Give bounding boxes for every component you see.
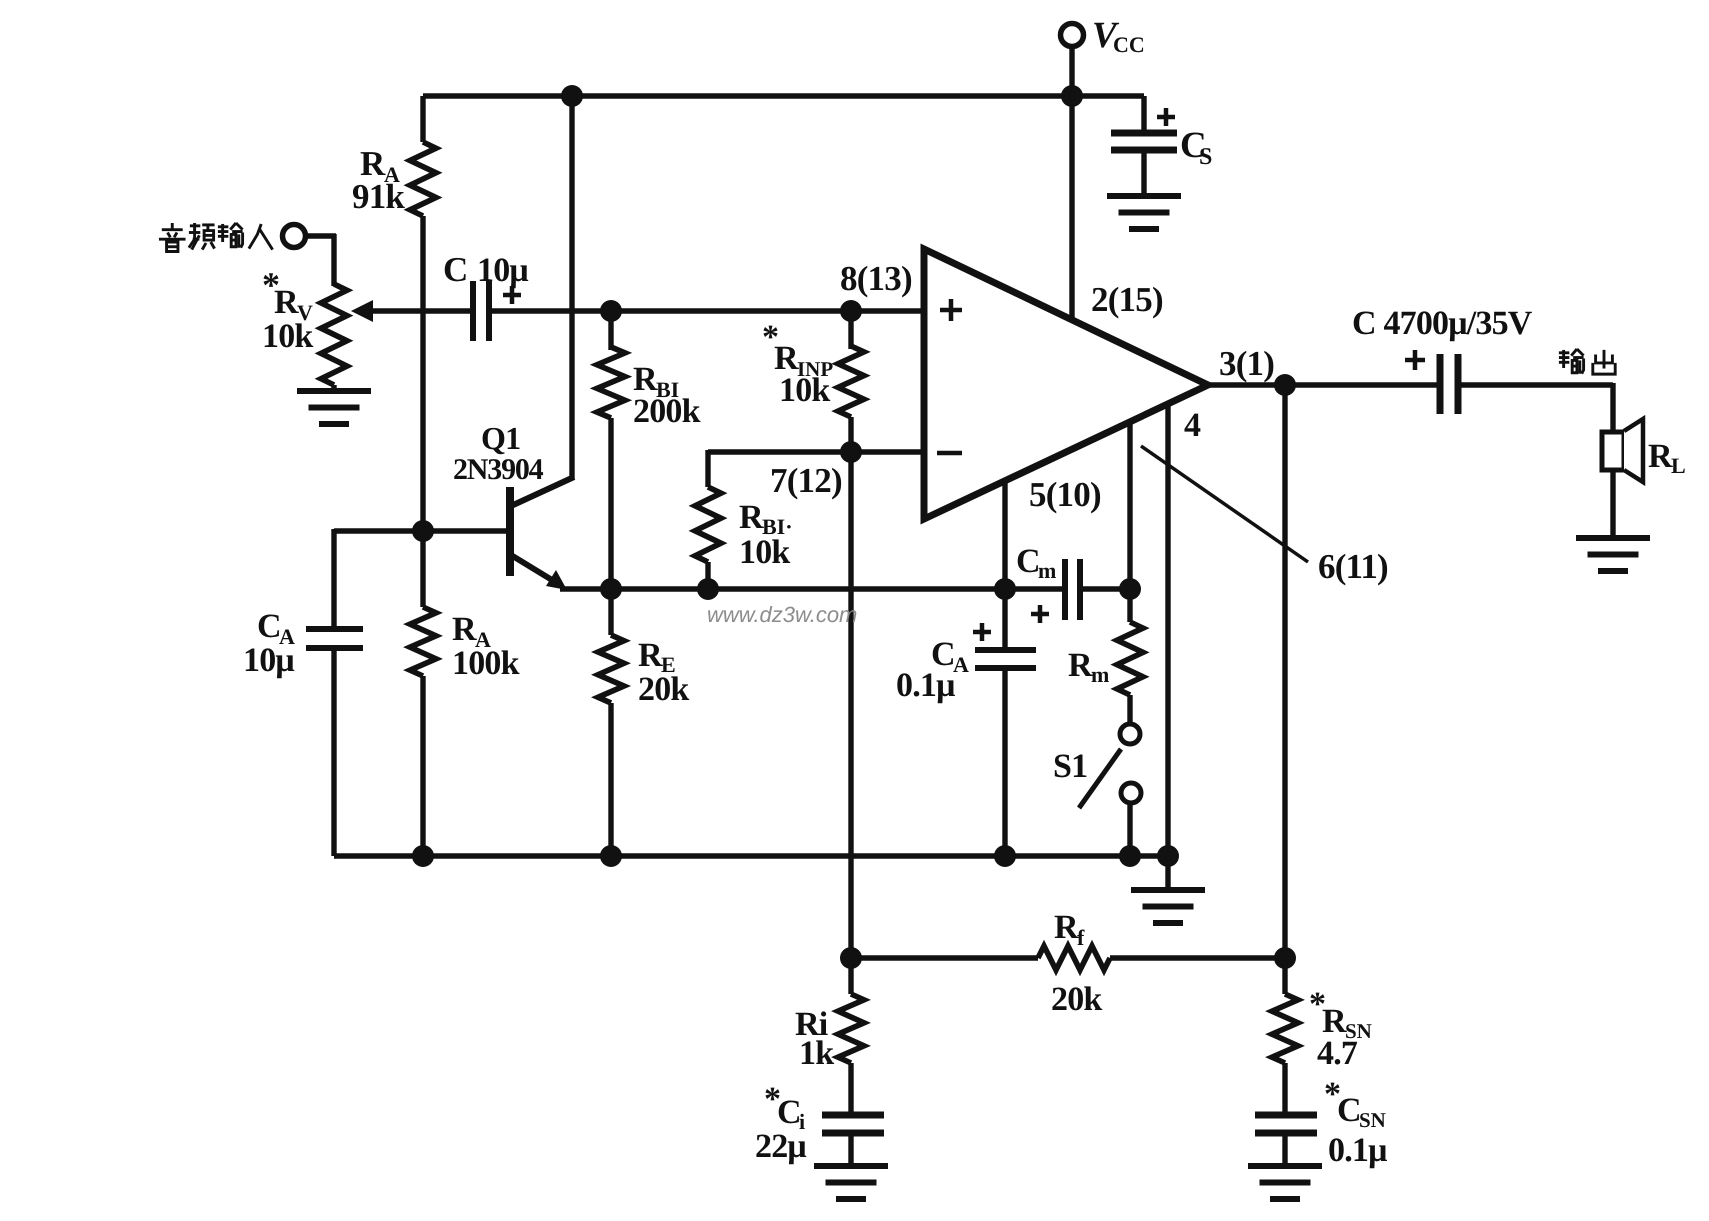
label RBI 200k bbox=[633, 361, 701, 430]
wire Rm to switch bbox=[1127, 695, 1132, 724]
capacitor CS plus bbox=[1157, 108, 1175, 126]
svg-text:0.1μ: 0.1μ bbox=[1328, 1132, 1387, 1169]
label audio input 音频输入 bbox=[159, 223, 273, 252]
label pin 5(10) bbox=[1029, 475, 1101, 514]
resistor Ri 1k bbox=[838, 958, 864, 1063]
wire bottom rail bbox=[334, 853, 1178, 858]
svg-text:R: R bbox=[638, 637, 663, 674]
svg-text:C: C bbox=[777, 1094, 801, 1131]
label Cm bbox=[1016, 543, 1056, 583]
label pin 2(15) bbox=[1091, 280, 1163, 319]
node top-rail / collector junction bbox=[561, 85, 583, 107]
wire RBI to emitter node bbox=[608, 418, 613, 591]
resistor RBI 200k bbox=[597, 311, 625, 418]
wire opamp output bbox=[1208, 382, 1440, 387]
transistor Q1 emitter bbox=[511, 555, 567, 590]
svg-text:100k: 100k bbox=[452, 645, 520, 682]
leader line pin6 bbox=[1141, 446, 1308, 562]
wire output to feedback bbox=[1282, 385, 1287, 960]
wire RA2 to rail bbox=[420, 676, 425, 856]
ground below RL bbox=[1576, 538, 1650, 571]
svg-text:www.dz3w.com: www.dz3w.com bbox=[707, 602, 857, 627]
svg-text:7(12): 7(12) bbox=[770, 461, 842, 500]
wire emitter rail bbox=[560, 586, 1063, 591]
node Cm right bbox=[1119, 578, 1141, 600]
label C 4700u/35V bbox=[1352, 305, 1533, 342]
wire switch to rail bbox=[1127, 803, 1132, 856]
wire RE to rail bbox=[608, 703, 613, 856]
speaker RL bbox=[1602, 419, 1643, 482]
label pin 6(11) bbox=[1318, 547, 1388, 586]
wire Cs to ground bbox=[1141, 150, 1146, 196]
capacitor C 10u bbox=[473, 281, 489, 341]
switch S1 blade bbox=[1079, 749, 1121, 808]
wire collector riser bbox=[569, 96, 574, 479]
resistor RA 100k bbox=[410, 531, 436, 676]
wire pin6 riser bbox=[1127, 422, 1132, 591]
svg-text:200k: 200k bbox=[633, 393, 701, 430]
svg-text:R: R bbox=[1648, 438, 1673, 475]
wire RINP to -input bbox=[848, 417, 853, 452]
label CA 10u bbox=[243, 608, 295, 679]
terminal Vcc bbox=[1061, 24, 1084, 97]
ground main bbox=[1131, 890, 1205, 923]
terminal audio input bbox=[283, 225, 306, 248]
wire pin5 node to CA bbox=[1002, 589, 1007, 650]
wire minus to Ri/Rf bbox=[848, 452, 853, 960]
wire top supply rail bbox=[423, 93, 1144, 98]
wire input terminal to pot bbox=[305, 234, 336, 286]
transistor Q1 collector bbox=[511, 477, 574, 506]
transistor Q1 2N3904 base bar bbox=[506, 487, 514, 576]
resistor Rf 20k bbox=[851, 946, 1285, 970]
svg-text:2N3904: 2N3904 bbox=[453, 453, 544, 486]
label pin 4 bbox=[1184, 407, 1201, 444]
svg-text:SN: SN bbox=[1359, 1108, 1386, 1132]
node RINP top bbox=[840, 300, 862, 322]
label CA 0.1u bbox=[896, 636, 969, 704]
svg-text:91k: 91k bbox=[352, 177, 405, 216]
wire -input bbox=[708, 449, 924, 454]
svg-text:S1: S1 bbox=[1053, 748, 1087, 785]
label output 输出 bbox=[1559, 349, 1615, 374]
svg-text:10k: 10k bbox=[739, 534, 790, 571]
capacitor CA 10u bbox=[306, 629, 363, 648]
wire RSN to CSN bbox=[1282, 1063, 1287, 1115]
op-amp minus sign bbox=[937, 451, 962, 456]
svg-text:2(15): 2(15) bbox=[1091, 280, 1163, 319]
wire pin5 bbox=[1002, 481, 1007, 591]
label S1 bbox=[1053, 748, 1087, 785]
svg-text:4: 4 bbox=[1184, 407, 1201, 444]
capacitor CA 0.1u bbox=[975, 650, 1036, 668]
svg-text:C: C bbox=[1016, 543, 1040, 580]
svg-text:R: R bbox=[452, 611, 477, 648]
svg-text:5(10): 5(10) bbox=[1029, 475, 1101, 514]
wire CA2 to rail bbox=[1002, 668, 1007, 856]
wire Ri to Ci bbox=[848, 1063, 853, 1115]
svg-text:CC: CC bbox=[1113, 32, 1145, 57]
wire Ci to ground bbox=[848, 1133, 853, 1166]
node emitter-RE bbox=[600, 578, 622, 600]
node rail S1 bbox=[1119, 845, 1141, 867]
capacitor Cm plus bbox=[1031, 605, 1049, 623]
svg-text:22μ: 22μ bbox=[755, 1128, 806, 1165]
ground below CSN bbox=[1248, 1166, 1322, 1199]
wire CSN to ground bbox=[1282, 1133, 1287, 1166]
svg-text:m: m bbox=[1038, 558, 1056, 583]
label pin 7(12) bbox=[770, 461, 842, 500]
node minus input bbox=[840, 441, 862, 463]
svg-text:6(11): 6(11) bbox=[1318, 547, 1388, 586]
svg-text:10μ: 10μ bbox=[477, 252, 528, 289]
svg-text:10k: 10k bbox=[262, 318, 313, 355]
node feedback right bbox=[1274, 947, 1296, 969]
node rail RA bbox=[412, 845, 434, 867]
label C 10u bbox=[443, 250, 528, 289]
label CSN 0.1u bbox=[1324, 1076, 1387, 1169]
capacitor C10u plus bbox=[503, 286, 521, 304]
node output bbox=[1274, 374, 1296, 396]
svg-text:3(1): 3(1) bbox=[1219, 344, 1274, 383]
watermark bbox=[707, 602, 857, 627]
capacitor Cm bbox=[1065, 559, 1080, 620]
label RINP 10k bbox=[762, 319, 833, 409]
potentiometer RV 10k bbox=[321, 284, 347, 385]
svg-text:0.1μ: 0.1μ bbox=[896, 667, 955, 704]
capacitor C4700 plus bbox=[1405, 350, 1425, 370]
svg-text:C: C bbox=[1337, 1092, 1361, 1129]
switch S1 top contact bbox=[1120, 724, 1140, 744]
wire base node left bbox=[334, 529, 423, 627]
label Q1 2N3904 bbox=[453, 420, 544, 486]
resistor RSN 4.7 bbox=[1272, 958, 1298, 1063]
label RV 10k bbox=[262, 265, 313, 355]
resistor RA 91k bbox=[410, 142, 436, 216]
wire rail to ground bbox=[1165, 856, 1170, 890]
svg-text:8(13): 8(13) bbox=[840, 259, 912, 298]
capacitor C 4700u bbox=[1440, 354, 1458, 414]
label RL bbox=[1648, 438, 1686, 478]
svg-text:S: S bbox=[1199, 144, 1212, 170]
node RBI top bbox=[600, 300, 622, 322]
label CS bbox=[1180, 125, 1212, 170]
ground below Ci bbox=[814, 1166, 888, 1199]
capacitor CA2 plus bbox=[973, 623, 991, 641]
svg-text:C 4700μ/35V: C 4700μ/35V bbox=[1352, 305, 1533, 342]
wire RBI- to emitter bbox=[705, 562, 710, 591]
wire CA to bottom rail bbox=[331, 648, 336, 856]
wire rail to Cs bbox=[1141, 96, 1146, 131]
label Rm bbox=[1068, 647, 1109, 687]
svg-text:10k: 10k bbox=[779, 372, 830, 409]
node rail pin4 bbox=[1157, 845, 1179, 867]
wire C to +input bbox=[489, 308, 924, 313]
node feedback left bbox=[840, 947, 862, 969]
resistor Rm bbox=[1117, 589, 1143, 695]
node top-rail / Vcc junction bbox=[1061, 85, 1083, 107]
svg-text:C: C bbox=[443, 250, 467, 289]
svg-text:f: f bbox=[1077, 925, 1085, 950]
ground below RV bbox=[297, 385, 371, 424]
svg-text:10μ: 10μ bbox=[243, 642, 294, 679]
label RBI- 10k bbox=[739, 499, 793, 571]
node emitter-RBI- bbox=[697, 578, 719, 600]
svg-text:R: R bbox=[739, 499, 764, 536]
resistor RBI- 10k bbox=[695, 450, 721, 562]
capacitor Ci 22u bbox=[822, 1115, 884, 1133]
capacitor CSN 0.1u bbox=[1255, 1115, 1317, 1133]
wire C4700 to speaker bbox=[1458, 383, 1613, 434]
svg-text:4.7: 4.7 bbox=[1317, 1035, 1358, 1072]
label Ci 22u bbox=[755, 1081, 806, 1165]
wire Vcc to pin2 bbox=[1069, 96, 1074, 322]
svg-text:m: m bbox=[1091, 662, 1109, 687]
label RA 100k bbox=[452, 611, 520, 682]
svg-text:L: L bbox=[1671, 453, 1686, 478]
svg-text:20k: 20k bbox=[1051, 981, 1102, 1018]
node base junction bbox=[412, 520, 434, 542]
label RSN 4.7 bbox=[1309, 986, 1372, 1072]
wire Cm to Rm bbox=[1080, 586, 1130, 591]
wire RA1 to base node bbox=[420, 216, 425, 533]
node rail CA2 bbox=[994, 845, 1016, 867]
op-amp plus sign bbox=[940, 299, 962, 321]
svg-text:R: R bbox=[1068, 647, 1093, 684]
wire base bbox=[423, 528, 507, 533]
wiper arrow of RV bbox=[351, 300, 470, 322]
svg-text:20k: 20k bbox=[638, 671, 689, 708]
label Ri 1k bbox=[795, 1006, 834, 1072]
label Rf 20k bbox=[1051, 909, 1102, 1018]
switch S1 bottom contact bbox=[1121, 783, 1141, 803]
ground below CS bbox=[1107, 196, 1181, 229]
resistor RINP 10k bbox=[838, 311, 864, 417]
label RA 91k bbox=[352, 144, 405, 216]
node rail RE bbox=[600, 845, 622, 867]
wire pin4 bbox=[1165, 404, 1170, 856]
label pin 8(13) bbox=[840, 259, 912, 298]
svg-text:Q1: Q1 bbox=[481, 420, 520, 456]
resistor RE 20k bbox=[598, 589, 624, 703]
capacitor CS bbox=[1111, 133, 1177, 150]
wire speaker to ground bbox=[1610, 470, 1615, 538]
node Cm left bbox=[994, 578, 1016, 600]
label Vcc bbox=[1092, 15, 1145, 57]
label pin 3(1) bbox=[1219, 344, 1274, 383]
svg-text:1k: 1k bbox=[799, 1035, 834, 1072]
svg-text:C: C bbox=[257, 608, 281, 645]
svg-text:R: R bbox=[274, 284, 299, 321]
svg-text:R: R bbox=[1054, 909, 1079, 946]
label RE 20k bbox=[638, 637, 689, 708]
op-amp U1 bbox=[924, 249, 1208, 519]
svg-text:A: A bbox=[953, 652, 969, 677]
wire rail to RA1 bbox=[420, 96, 425, 142]
